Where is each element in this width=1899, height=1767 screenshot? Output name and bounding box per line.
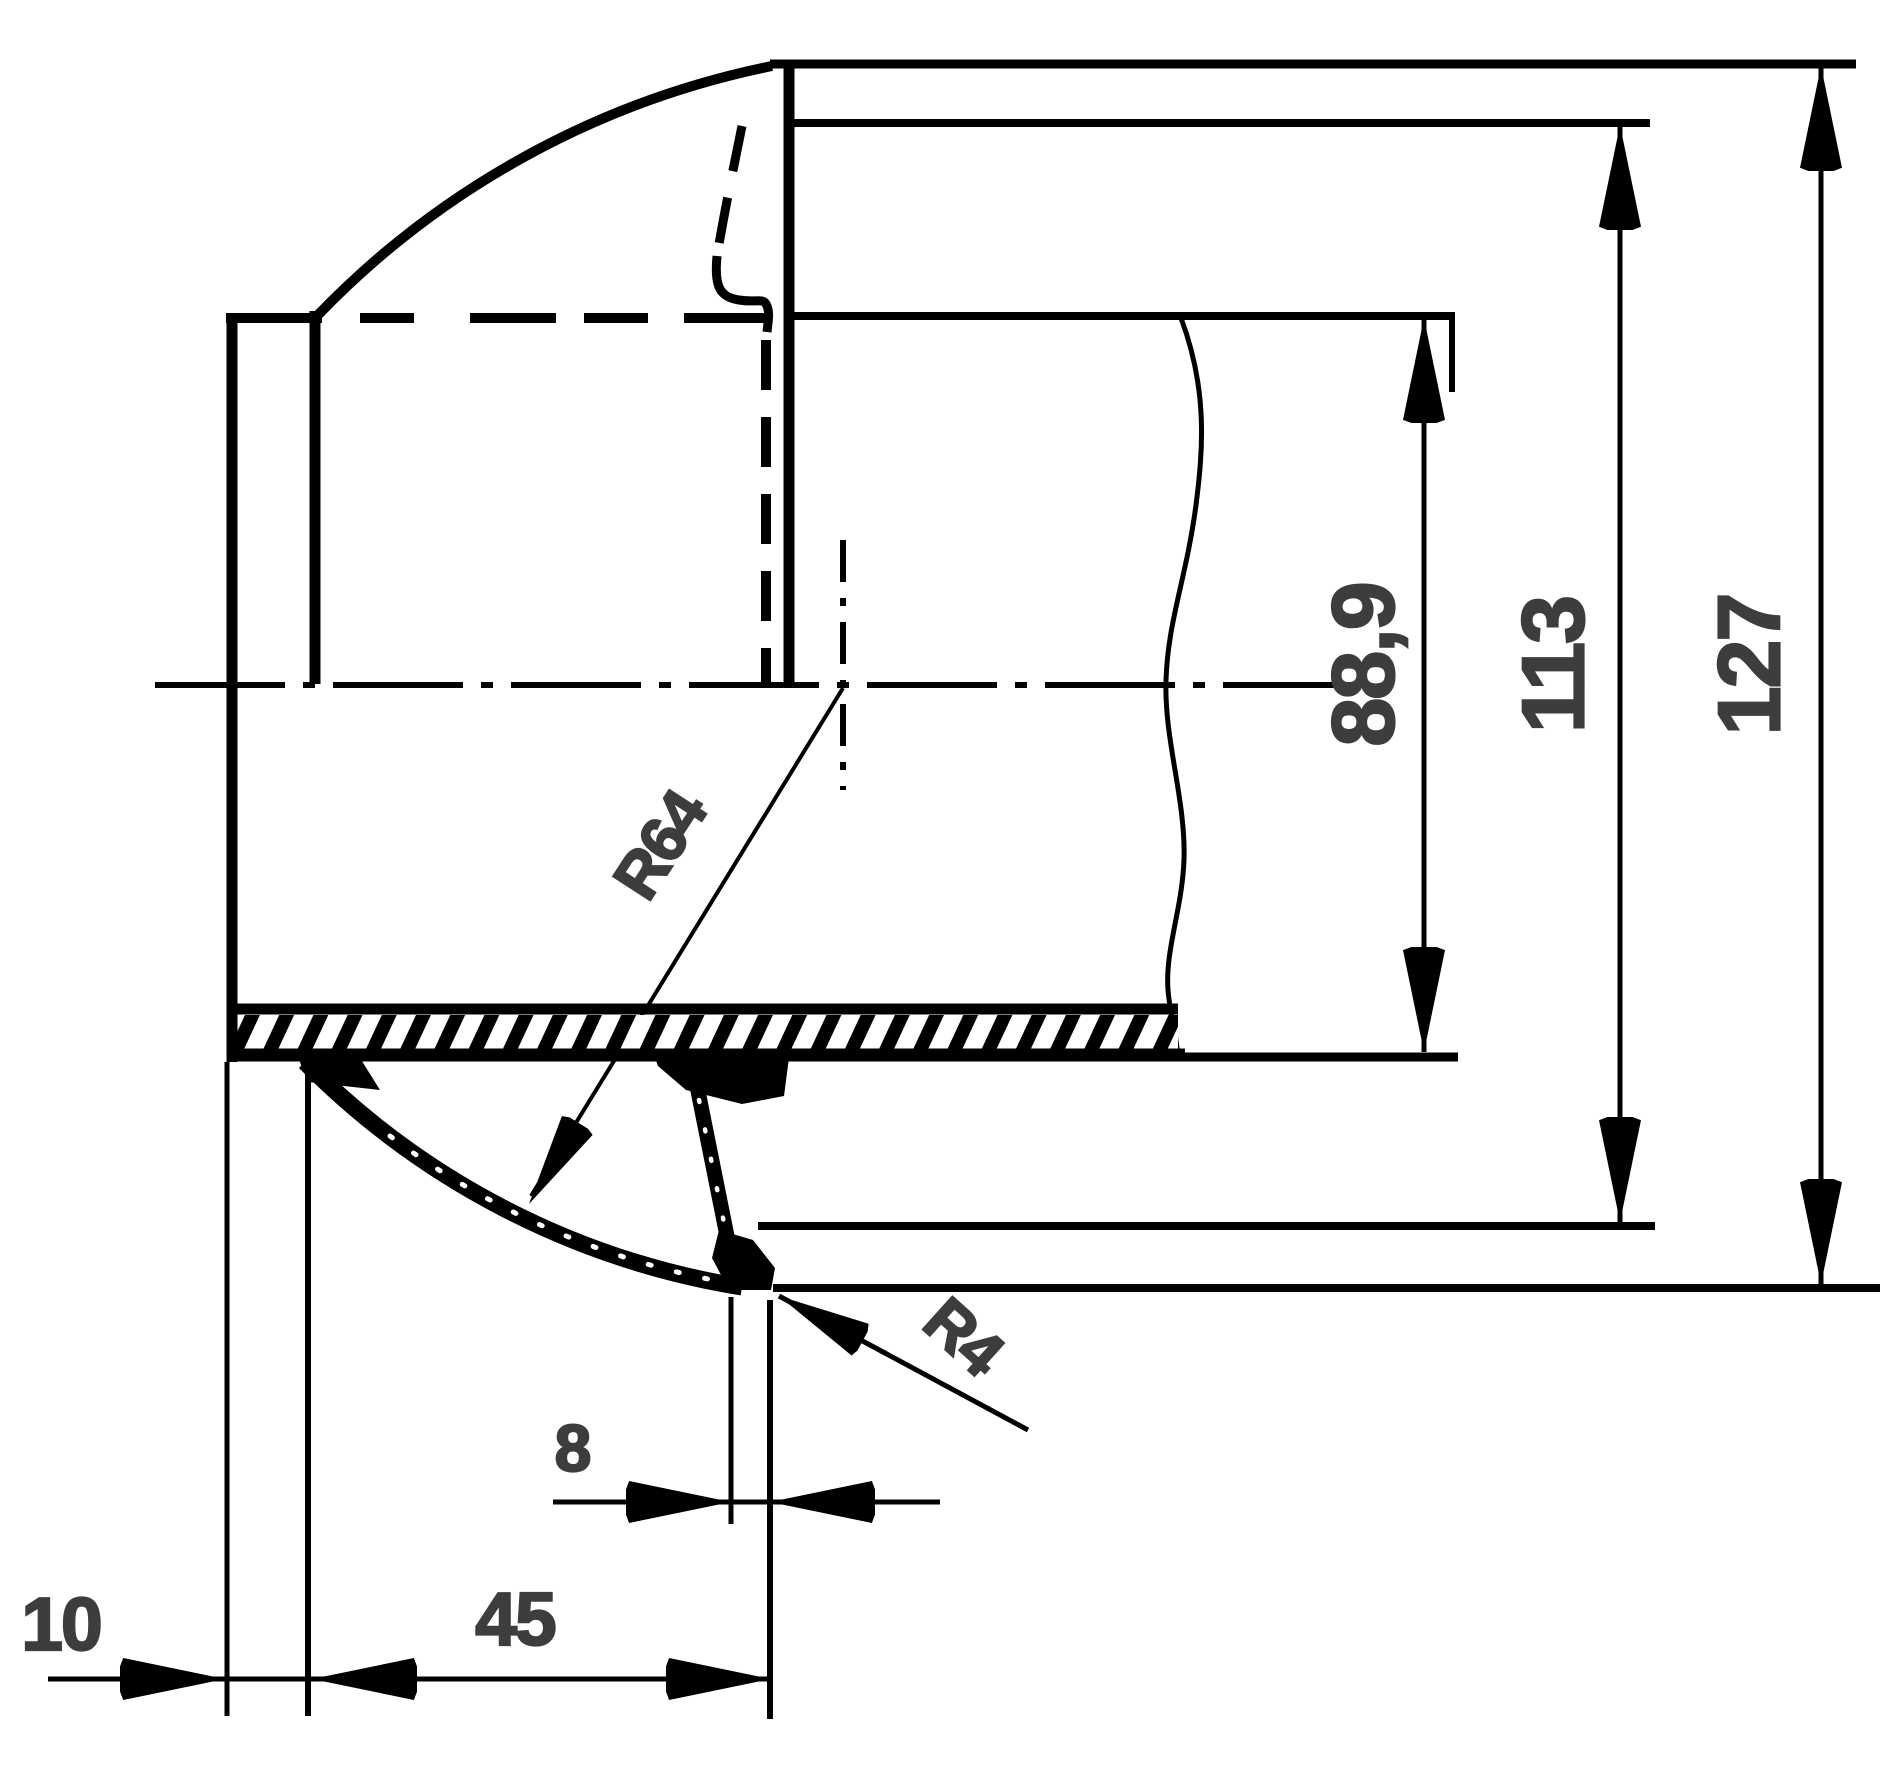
svg-text:88,9: 88,9 (1313, 583, 1412, 746)
88.9 arrow up (1403, 318, 1445, 423)
head tangent hidden line (dashed) (360, 313, 765, 323)
R4 leader line (779, 1296, 1028, 1430)
blank plate section band: top edge (229, 1004, 1178, 1015)
horizontal centerline (155, 682, 1355, 688)
113 arrow up (1599, 125, 1641, 230)
pipe wall top edge (226, 313, 322, 323)
svg-text:127: 127 (1699, 595, 1798, 736)
pipe wall outer vertical line (227, 313, 238, 1062)
10 arrow right-pointing (120, 1658, 225, 1700)
cap straight flange edge (784, 62, 795, 686)
svg-text:8: 8 (555, 1411, 590, 1485)
8 arrow right-pointing (626, 1481, 731, 1523)
white dots on die arc (390, 1136, 735, 1284)
dimension line 8 (553, 1500, 940, 1505)
R64 centre mark vertical dash-dot (840, 540, 846, 790)
pipe OD top extension line (88.9) (790, 312, 1455, 320)
die edge radius arc (thick) (305, 1062, 742, 1287)
dimension line 113 (1618, 125, 1623, 1222)
extension line left wall inner (bottom) (305, 1072, 311, 1716)
127 lower extension line (773, 1284, 1880, 1292)
weld groove edge (thick diagonal) (697, 1086, 727, 1236)
113 lower extension line (758, 1222, 1655, 1230)
113 arrow down (1599, 1117, 1641, 1222)
top extension line (127) (770, 60, 1856, 69)
cap inner knuckle hidden line (S hook) (716, 256, 768, 332)
svg-text:10: 10 (21, 1582, 100, 1666)
extension line 8-dim left (729, 1297, 734, 1524)
dimension line 88.9 (1422, 320, 1427, 1052)
R64 leader line (531, 688, 843, 1196)
blank plate section band: hatching (229, 1015, 1178, 1049)
white dots on weld groove edge (699, 1100, 725, 1228)
127 arrow down (1800, 1179, 1842, 1284)
8 arrow left-pointing (770, 1481, 875, 1523)
cap inner edge hidden line (dashed vertical) (761, 340, 771, 684)
cap crown arc (317, 66, 772, 316)
extension line 8-dim right / 45-dim right (767, 1300, 773, 1719)
45 arrow left-pointing (312, 1658, 417, 1700)
dimension line 127 (1819, 66, 1824, 1284)
R4 arrowhead (779, 1296, 869, 1356)
extension line end tick (1449, 318, 1455, 392)
45 arrow right-pointing (666, 1658, 771, 1700)
svg-text:113: 113 (1503, 597, 1602, 733)
lower extension line (88.9 bottom) (1178, 1053, 1458, 1062)
upper extension line (113) (792, 119, 1650, 127)
88.9 arrow down (1403, 947, 1445, 1052)
weld nugget upper (black blob) (652, 1050, 790, 1104)
cap inner surface hidden line (dashed S-curve) (717, 126, 742, 256)
127 arrow up (1800, 66, 1842, 171)
R64 arrowhead (529, 1116, 593, 1204)
die arc root fill (295, 1050, 380, 1090)
dimension line 45 / 10 (48, 1677, 771, 1682)
weld nugget lower (black blob) (712, 1230, 775, 1290)
svg-text:45: 45 (475, 1577, 555, 1661)
break line (wavy) (1166, 318, 1202, 1058)
pipe wall inner vertical line (310, 311, 321, 684)
blank plate section band: bottom edge (229, 1049, 1185, 1062)
extension line left wall outer (bottom) (225, 1062, 230, 1716)
